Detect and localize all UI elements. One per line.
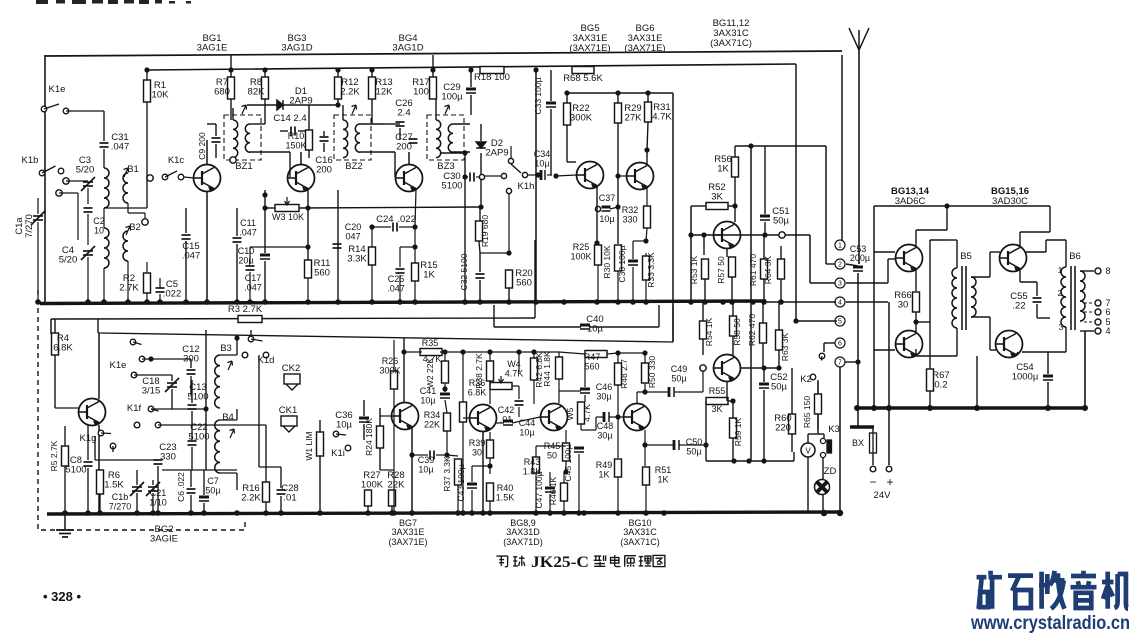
junction bbox=[535, 172, 540, 177]
svg-text:5/20: 5/20 bbox=[59, 255, 78, 266]
wire bbox=[872, 453, 874, 465]
wire bbox=[617, 353, 619, 363]
label R26 300K bbox=[382, 356, 399, 366]
wire bbox=[578, 445, 580, 447]
capacitor C10 bbox=[238, 246, 255, 256]
label BG7 type bbox=[391, 527, 424, 537]
capacitor C52 bbox=[770, 372, 787, 383]
label page 328 bbox=[43, 589, 81, 604]
capacitor C51 bbox=[772, 206, 789, 217]
wire output top rail bbox=[874, 205, 1050, 207]
wire bbox=[609, 416, 618, 418]
junction bbox=[821, 510, 827, 516]
label 220 bbox=[775, 423, 791, 434]
wire bbox=[97, 319, 99, 333]
wire bbox=[136, 493, 138, 514]
label 3AD30C bbox=[992, 196, 1028, 207]
svg-text:BX: BX bbox=[852, 438, 864, 448]
wire bbox=[732, 438, 734, 461]
transformer B6 core bbox=[1071, 266, 1075, 330]
svg-text:50µ: 50µ bbox=[671, 374, 686, 384]
wire bbox=[203, 470, 205, 495]
junction on upper bus bbox=[462, 299, 468, 305]
wire bbox=[946, 206, 948, 230]
wire bbox=[550, 70, 552, 101]
label 1/10 bbox=[149, 498, 167, 508]
wire bbox=[617, 385, 619, 458]
wire bbox=[795, 64, 797, 321]
potentiometer W3 wiper bbox=[285, 197, 290, 205]
label K1b bbox=[22, 155, 39, 166]
label 27K bbox=[625, 113, 643, 124]
wire bbox=[793, 452, 795, 461]
label 10&#181; bbox=[534, 159, 549, 169]
wire top supply rail bbox=[45, 51, 842, 56]
junction on upper bus bbox=[688, 299, 694, 305]
label 2.2K bbox=[340, 87, 360, 98]
capacitor C31 bbox=[111, 132, 128, 143]
adjust arrow B2 bbox=[126, 226, 131, 235]
label 22K bbox=[388, 480, 406, 491]
transistor BG5 bbox=[577, 162, 604, 189]
transistor BG15 bbox=[1000, 245, 1027, 272]
junction on lower bus bbox=[547, 510, 553, 516]
wire bbox=[822, 495, 824, 513]
label R55 bbox=[709, 386, 726, 396]
wire bbox=[704, 279, 706, 302]
svg-text:W4: W4 bbox=[507, 359, 521, 369]
svg-text:R25: R25 bbox=[573, 242, 590, 252]
transistor BG6 bbox=[627, 163, 654, 190]
capacitor C3 symbol bbox=[81, 177, 95, 191]
svg-text:C48: C48 bbox=[597, 421, 614, 431]
label R32 330 bbox=[622, 205, 639, 215]
resistor R63 bbox=[776, 330, 783, 350]
wire bbox=[644, 353, 646, 363]
ground bbox=[56, 530, 74, 537]
wire bbox=[151, 408, 206, 410]
resistor R20 label bbox=[515, 268, 532, 279]
capacitor C33 bbox=[533, 77, 543, 114]
svg-text:K1g: K1g bbox=[80, 433, 97, 444]
junction bbox=[506, 250, 511, 255]
junction on lower bus bbox=[576, 510, 582, 516]
wire bbox=[127, 261, 129, 302]
inductor B2 secondary bbox=[123, 231, 128, 261]
capacitor C46 symbol bbox=[580, 389, 590, 393]
wire bbox=[559, 352, 585, 354]
wire bbox=[445, 400, 447, 413]
inductor B1 secondary bbox=[123, 173, 128, 203]
wire bbox=[646, 228, 647, 241]
label R13 12K bbox=[375, 77, 392, 88]
inductor B1 primary bbox=[104, 168, 109, 208]
junction bbox=[642, 350, 647, 355]
wire bbox=[588, 161, 590, 163]
junction bbox=[462, 150, 467, 155]
svg-text:C1b: C1b bbox=[112, 492, 129, 502]
svg-text:1K: 1K bbox=[657, 475, 668, 485]
wire bbox=[171, 375, 173, 381]
wire dashed tap bbox=[1084, 302, 1094, 304]
svg-text:C34: C34 bbox=[534, 149, 551, 159]
svg-text:1K: 1K bbox=[423, 270, 435, 281]
wire bbox=[412, 454, 428, 456]
svg-text:3AX31E: 3AX31E bbox=[391, 527, 424, 537]
wire bbox=[400, 246, 415, 248]
transistor BG16 bbox=[996, 331, 1023, 358]
resistor R24 label bbox=[364, 418, 374, 456]
label 3K bbox=[711, 404, 722, 414]
svg-text:100: 100 bbox=[413, 87, 429, 98]
svg-text:2.7K: 2.7K bbox=[119, 283, 139, 294]
wire bbox=[915, 312, 917, 333]
wire bbox=[64, 426, 66, 446]
switch K1e b bbox=[130, 339, 145, 362]
capacitor C21 symbol bbox=[146, 482, 160, 496]
label 560 bbox=[584, 362, 599, 372]
capacitor C17 symbol bbox=[246, 266, 255, 270]
capacitor C45 bbox=[563, 444, 573, 481]
wire to ground bbox=[64, 514, 66, 530]
svg-text:B6: B6 bbox=[1069, 251, 1081, 262]
wire bbox=[732, 302, 734, 316]
wire BG8 emitter bbox=[482, 431, 484, 513]
wire bbox=[732, 401, 734, 418]
adjust arrow B4 bbox=[230, 429, 235, 438]
svg-text:K1b: K1b bbox=[22, 155, 39, 166]
wire bbox=[563, 501, 565, 513]
svg-text:R10: R10 bbox=[288, 131, 305, 141]
capacitor C4 bbox=[62, 245, 74, 256]
wire bbox=[508, 288, 510, 302]
svg-text:R39: R39 bbox=[469, 438, 486, 448]
capacitor C13 bbox=[189, 382, 206, 393]
wire bbox=[1065, 240, 1067, 267]
svg-text:.047: .047 bbox=[239, 228, 257, 238]
capacitor C47 bbox=[534, 471, 544, 508]
junction on output bus bbox=[871, 405, 877, 411]
junction on lower bus bbox=[97, 510, 103, 516]
wire bbox=[1080, 270, 1094, 272]
label 4.7K bbox=[423, 354, 442, 364]
wire pin1 from top rail bbox=[841, 55, 843, 240]
resistor R38 label bbox=[474, 353, 484, 389]
svg-text:5100: 5100 bbox=[188, 432, 209, 443]
wire bbox=[580, 424, 582, 430]
wire bbox=[807, 434, 809, 443]
wire bbox=[146, 293, 148, 302]
label 100K bbox=[361, 480, 384, 491]
switch K1c bbox=[162, 171, 184, 180]
svg-text:R65 150: R65 150 bbox=[802, 396, 812, 428]
junction on upper bus bbox=[125, 299, 131, 305]
terminal bbox=[886, 466, 892, 472]
wire bbox=[566, 125, 568, 162]
svg-text:10µ: 10µ bbox=[336, 420, 353, 431]
label 50&#181; bbox=[771, 382, 788, 393]
svg-text:R38 2.7K: R38 2.7K bbox=[474, 353, 484, 389]
capacitor C32 symbol bbox=[476, 274, 485, 278]
resistor R68 bbox=[572, 67, 594, 74]
svg-text:R3 2.7K: R3 2.7K bbox=[228, 304, 263, 315]
label (3AX71E) bbox=[569, 43, 610, 54]
junction on upper bus bbox=[397, 299, 403, 305]
svg-text:R45: R45 bbox=[544, 441, 561, 451]
svg-text:V: V bbox=[805, 447, 811, 456]
wire bbox=[947, 239, 957, 241]
transformer BZ1 secondary bbox=[245, 124, 250, 152]
wire bbox=[103, 268, 105, 302]
terminal bbox=[700, 365, 706, 371]
junction bbox=[262, 192, 267, 197]
wire BG13 base bbox=[888, 258, 896, 260]
wire pin7 bbox=[845, 361, 858, 363]
label 5100 bbox=[187, 392, 208, 403]
label K1e bbox=[49, 84, 66, 95]
label R34 22K bbox=[424, 410, 441, 420]
wire bbox=[971, 316, 990, 318]
wire bbox=[728, 205, 735, 207]
wire bbox=[414, 227, 416, 263]
svg-text:(3AX71E): (3AX71E) bbox=[624, 43, 665, 54]
label 7/270 bbox=[24, 214, 35, 238]
resistor R48 bbox=[615, 363, 622, 385]
wire bbox=[190, 376, 192, 395]
junction bbox=[487, 349, 492, 354]
terminal bbox=[870, 466, 876, 472]
label minus bbox=[869, 475, 876, 489]
wire bbox=[679, 444, 706, 446]
node pin 5 bbox=[835, 316, 845, 326]
capacitor C9 symbol bbox=[212, 138, 221, 142]
label 200u bbox=[850, 253, 870, 263]
resistor R44 bbox=[556, 357, 563, 379]
wire bbox=[414, 281, 416, 302]
label R8 82K bbox=[250, 77, 262, 88]
node pin 4 bbox=[835, 297, 845, 307]
junction bbox=[305, 244, 310, 249]
resistor R50 bbox=[642, 363, 649, 383]
capacitor C40 bbox=[586, 314, 603, 325]
junction on lower bus bbox=[409, 510, 415, 516]
junction bbox=[642, 442, 647, 447]
junction bbox=[642, 389, 647, 394]
svg-text:2AP9: 2AP9 bbox=[485, 148, 508, 159]
label 560 bbox=[516, 278, 532, 289]
capacitor C51 symbol bbox=[760, 216, 770, 220]
wire bbox=[435, 99, 437, 120]
svg-text:B1: B1 bbox=[127, 164, 139, 175]
wire left frame bbox=[44, 55, 46, 302]
svg-text:R43: R43 bbox=[524, 457, 541, 467]
transformer B5 secondary bbox=[971, 277, 976, 317]
svg-text:.22: .22 bbox=[1012, 301, 1025, 312]
potentiometer W4 wiper bbox=[499, 376, 504, 383]
wire bbox=[112, 446, 114, 452]
capacitor C36 bbox=[335, 410, 352, 421]
resistor R14 bbox=[369, 247, 376, 265]
svg-text:C41: C41 bbox=[420, 386, 437, 396]
label 1.5K bbox=[104, 480, 124, 491]
junction bbox=[234, 335, 239, 340]
label 30 bbox=[472, 448, 482, 458]
capacitor C48 symbol bbox=[604, 412, 609, 422]
junction bbox=[409, 452, 414, 457]
wire bbox=[702, 302, 704, 321]
label 10&#181; bbox=[420, 396, 435, 406]
svg-text:C46: C46 bbox=[596, 382, 613, 392]
capacitor C6 label bbox=[176, 472, 186, 502]
svg-text:R53 1K: R53 1K bbox=[689, 255, 699, 284]
resistor R2 symbol bbox=[144, 273, 151, 293]
wire bbox=[250, 151, 290, 153]
wire bbox=[249, 272, 251, 302]
decoration bbox=[36, 0, 191, 4]
svg-text:(3AX71C): (3AX71C) bbox=[620, 537, 660, 547]
svg-text:50µ: 50µ bbox=[205, 486, 220, 496]
resistor R65 bbox=[815, 394, 822, 414]
svg-text:1.5K: 1.5K bbox=[104, 480, 124, 491]
wire bbox=[1045, 240, 1047, 252]
label BG2 3AGIE bbox=[154, 524, 173, 535]
wire bbox=[1046, 239, 1066, 241]
label .22 bbox=[1012, 301, 1025, 312]
wire BG9 collector bbox=[558, 379, 560, 403]
capacitor C34 symbol bbox=[541, 170, 545, 180]
capacitor C3 bbox=[79, 155, 91, 166]
wire bbox=[674, 391, 703, 393]
resistor R40 bbox=[487, 483, 494, 501]
label BZ3 bbox=[437, 161, 454, 172]
label .01 bbox=[500, 415, 513, 425]
wire bbox=[1036, 304, 1038, 318]
wire bbox=[236, 208, 238, 236]
resistor R37 bbox=[455, 459, 462, 485]
wire bbox=[462, 352, 464, 402]
wire bbox=[826, 263, 835, 265]
svg-text:3AGIE: 3AGIE bbox=[150, 534, 178, 545]
label 20&#181; bbox=[238, 256, 253, 266]
svg-text:330: 330 bbox=[160, 452, 176, 463]
wire BG2 emitter bbox=[98, 425, 100, 514]
label BG10 type bbox=[623, 527, 657, 537]
label .047 bbox=[387, 284, 405, 294]
capacitor C54 symbol bbox=[1043, 376, 1053, 380]
resistor R31 bbox=[645, 102, 652, 122]
capacitor C55 bbox=[1010, 291, 1027, 302]
junction on upper bus bbox=[506, 299, 512, 305]
transistor BG2 bbox=[79, 399, 106, 426]
wire BG4 base bbox=[394, 152, 396, 177]
junction on upper bus bbox=[702, 299, 708, 305]
svg-text:R24 180K: R24 180K bbox=[364, 418, 374, 456]
svg-text:.01: .01 bbox=[283, 493, 296, 504]
junction bbox=[203, 406, 208, 411]
wire bbox=[578, 454, 580, 513]
wire bbox=[264, 99, 266, 124]
label R16 2.2K bbox=[242, 483, 259, 494]
junction bbox=[531, 349, 536, 354]
svg-text:2.2K: 2.2K bbox=[340, 87, 360, 98]
meter V bbox=[801, 443, 815, 457]
label R31 4.7K bbox=[653, 102, 670, 113]
wire bbox=[887, 259, 889, 283]
wire bbox=[916, 321, 930, 323]
junction bbox=[793, 318, 798, 323]
svg-text:C11: C11 bbox=[240, 218, 256, 228]
label K1d bbox=[258, 355, 275, 366]
wire to BG12 base bbox=[702, 371, 704, 392]
svg-text:C6 .022: C6 .022 bbox=[176, 472, 186, 502]
resistor R52 bbox=[706, 203, 728, 210]
diode D2 label bbox=[491, 138, 503, 149]
svg-text:C45 100µ: C45 100µ bbox=[563, 444, 573, 481]
resistor R54 bbox=[700, 321, 707, 339]
switch K1f bbox=[148, 406, 161, 428]
junction on upper bus bbox=[35, 299, 41, 305]
capacitor C43 bbox=[456, 464, 466, 501]
label 2AP9 bbox=[289, 96, 312, 107]
wire bbox=[536, 445, 566, 447]
label R49 1K bbox=[596, 460, 613, 470]
label 100&#181; bbox=[441, 92, 463, 103]
wire bbox=[489, 458, 491, 474]
wire bbox=[763, 390, 765, 461]
svg-text:−: − bbox=[869, 475, 876, 489]
node pin 7 bbox=[835, 357, 845, 367]
wire bbox=[470, 95, 472, 115]
wire bbox=[360, 123, 385, 125]
switch K1e pole bbox=[131, 372, 137, 378]
label R68 5.6K bbox=[563, 73, 603, 84]
switch K1h bbox=[501, 158, 527, 193]
junction bbox=[487, 463, 492, 468]
wire bbox=[780, 246, 782, 259]
wire bbox=[66, 180, 88, 182]
label R60 220 bbox=[774, 413, 791, 424]
label R18 100 bbox=[474, 72, 510, 83]
inductor B4 bbox=[215, 420, 220, 473]
wire BG7 base bbox=[380, 415, 391, 417]
wire bbox=[371, 70, 373, 77]
label terminal 4 bbox=[1105, 326, 1110, 336]
label BG10 type2 bbox=[620, 537, 660, 547]
svg-text:30: 30 bbox=[472, 448, 482, 458]
junction bbox=[944, 203, 949, 208]
capacitor C53 label bbox=[850, 244, 867, 254]
jack CK2 label bbox=[282, 363, 300, 374]
wire bbox=[94, 437, 96, 460]
wire bbox=[550, 109, 552, 175]
svg-text:R64 3K: R64 3K bbox=[763, 255, 773, 284]
wire bbox=[37, 198, 39, 214]
switch K1b bbox=[39, 166, 64, 176]
resistor R26 bbox=[391, 371, 398, 389]
svg-text:10µ: 10µ bbox=[599, 214, 614, 224]
svg-text:50µ: 50µ bbox=[771, 382, 788, 393]
resistor R61 bbox=[761, 259, 768, 279]
svg-text:27K: 27K bbox=[625, 113, 643, 124]
label 12K bbox=[376, 87, 394, 98]
wire bbox=[54, 319, 56, 333]
resistor R63 label bbox=[780, 332, 790, 361]
junction bbox=[615, 350, 620, 355]
svg-text:C43 100µ: C43 100µ bbox=[456, 464, 466, 501]
resistor R1 bbox=[144, 80, 151, 102]
wire bbox=[595, 417, 597, 430]
transformer BZ3 box bbox=[427, 115, 464, 160]
